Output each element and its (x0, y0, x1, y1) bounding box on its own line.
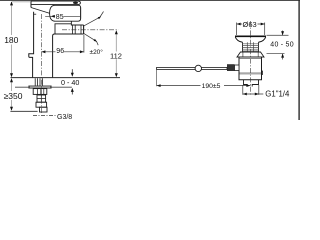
plus-minus 20 upper arrowhead (98, 17, 101, 20)
spout outlet block (83, 25, 85, 34)
svg-text:190±5: 190±5 (202, 83, 221, 90)
dimension 112 line (115, 32, 117, 75)
neck block (55, 24, 71, 34)
inlet fitting (36, 102, 47, 107)
dimension G1 1/4 extension lines (243, 85, 259, 95)
svg-text:85: 85 (56, 14, 64, 21)
thread inner verticals (247, 42, 253, 52)
seal washer (237, 52, 264, 57)
tailpipe (244, 80, 259, 87)
dimension 190 left arrow (157, 84, 161, 87)
dimension 40-50 line (282, 31, 284, 60)
drain flange top (235, 35, 266, 37)
pop-up rod (157, 67, 227, 69)
svg-text:G1"1/4: G1"1/4 (265, 90, 290, 99)
flange washer (29, 86, 51, 88)
dimension 0-40 upper arrow (71, 69, 73, 73)
svg-text:96: 96 (56, 48, 64, 55)
plus-minus 20 upper ray (84, 12, 104, 26)
dimension diameter 63 left arrow (237, 23, 241, 26)
check valve column (37, 95, 46, 102)
rod knob (195, 65, 201, 71)
deck upper extension line right (267, 34, 289, 36)
dimension 190 line (157, 85, 251, 87)
dimension 96 left arrow (41, 50, 45, 53)
faucet neck diagonal (31, 8, 50, 14)
G3/8 leader (33, 114, 56, 116)
dimension 85 left arrow (51, 15, 55, 18)
inlet tip (40, 107, 48, 112)
dimension 180 bottom arrow (10, 73, 13, 77)
washer end caps (29, 86, 30, 89)
seal inner verticals (243, 52, 258, 57)
deck top line (11, 77, 121, 79)
dimension 85 extension line (79, 7, 81, 20)
thread lines (243, 44, 259, 51)
mounting nut (33, 89, 47, 95)
dimension 112 top arrow (115, 30, 118, 34)
lever tip dot (73, 2, 78, 4)
dimension >=350 line (11, 79, 13, 111)
threaded section (243, 42, 259, 52)
svg-text:180: 180 (4, 35, 18, 45)
rod connector (235, 65, 240, 71)
drain centerline (249, 21, 251, 96)
dimension diameter 63 ticks (237, 23, 265, 36)
spout centerline (62, 29, 119, 31)
plus-minus 20 lower arrowhead (94, 39, 97, 42)
handle body loop (50, 5, 81, 21)
drain flange trumpet (235, 37, 265, 42)
svg-text:40 - 50: 40 - 50 (270, 42, 294, 49)
neck underside (53, 34, 84, 78)
plus-minus 20 lower ray (84, 33, 98, 45)
threaded shank (35, 78, 42, 86)
dimension 96 right arrow (80, 50, 84, 53)
svg-text:112: 112 (110, 51, 122, 60)
svg-text:≥350: ≥350 (4, 91, 23, 101)
dimension diameter 63 line (237, 23, 265, 25)
dimension G1 1/4 left arrow (243, 93, 247, 96)
body underside step to spout (71, 21, 83, 25)
right border line (298, 0, 299, 120)
nut hatch (37, 89, 43, 95)
dimension G1 1/4 line (243, 93, 263, 95)
svg-text:0 - 40: 0 - 40 (61, 78, 79, 87)
dimension 190 extension line (156, 70, 158, 86)
dimension 96 line (41, 51, 84, 53)
dimension 112 bottom arrow (115, 73, 118, 77)
dimension 180 top arrow (10, 1, 13, 5)
lever capsule (handle top) (31, 1, 80, 5)
rod clamp block (227, 64, 235, 71)
dimension 96 extension line (83, 35, 85, 53)
body shoulder tick (34, 13, 37, 15)
deck lower extension line right (267, 53, 285, 55)
dimension 180 top extension (12, 1, 30, 3)
dimension >=350 bottom arrow (10, 107, 13, 111)
svg-text:G3/8: G3/8 (57, 114, 72, 120)
dimension >=350 top arrow (10, 78, 13, 82)
column joint (37, 95, 46, 102)
top border line (0, 0, 300, 1)
dimension 40-50 lower arrow (281, 54, 284, 58)
dimension 180 line (11, 2, 13, 77)
body left edge (29, 12, 34, 78)
dimension 0-40 lower arrow (71, 91, 73, 95)
faucet back stub (30, 1, 32, 8)
svg-text:Ø63: Ø63 (243, 20, 257, 29)
body gray band (240, 72, 262, 74)
body centerline (40, 14, 42, 113)
dimension G1 1/4 right arrow (255, 93, 259, 96)
body right step (262, 71, 263, 75)
dimension 85 line (45, 15, 80, 17)
dimension diameter 63 right arrow (261, 23, 265, 26)
svg-text:±20°: ±20° (90, 48, 104, 56)
deck underside line (15, 86, 72, 88)
floor reference line (10, 110, 37, 112)
body shoulder line (239, 58, 262, 60)
dimension 40-50 upper arrow (281, 31, 284, 35)
drain body (239, 57, 262, 80)
dimension 190 right arrow (246, 84, 250, 87)
outlet joint lines (72, 25, 81, 34)
